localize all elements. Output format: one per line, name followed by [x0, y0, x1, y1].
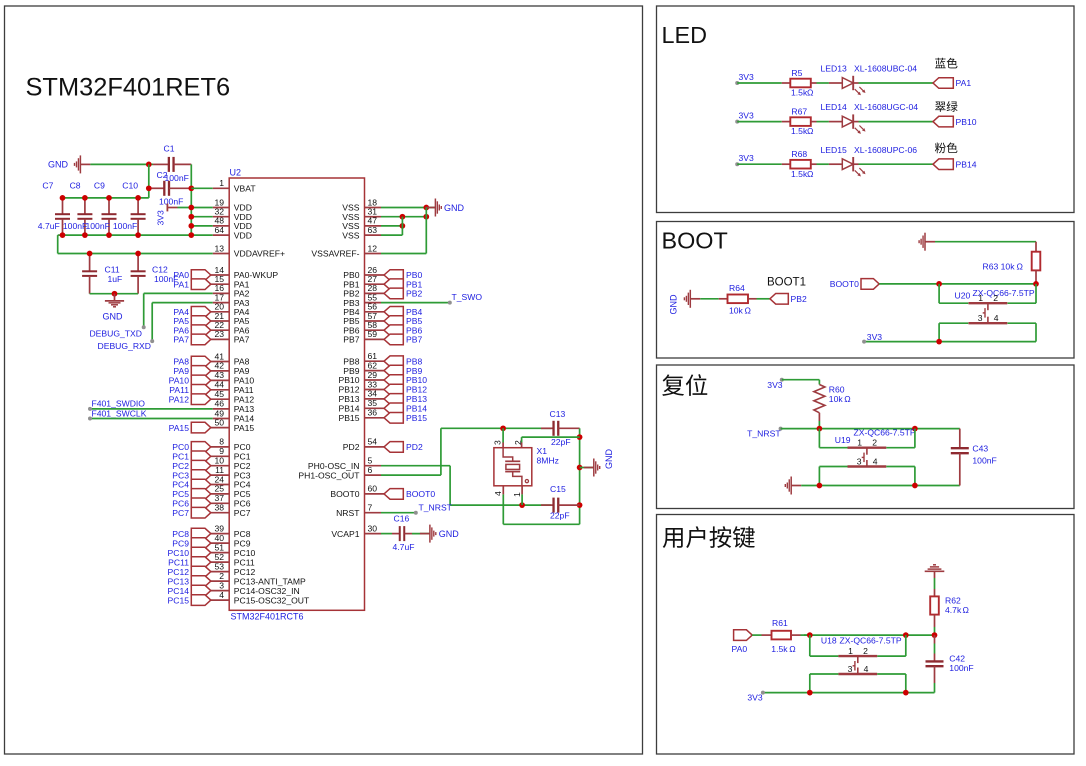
svg-text:GND: GND — [48, 160, 69, 170]
port flag PA8 (pin 41) — [191, 356, 211, 367]
U2 pin 37 PC6 — [211, 502, 229, 504]
U2 pin 7 NRST — [365, 512, 382, 514]
port flag PC3 (pin 11) — [191, 470, 211, 481]
capacitor C16 — [392, 533, 400, 535]
U2 pin 39 PC8 — [211, 533, 229, 535]
svg-text:3V3: 3V3 — [739, 153, 755, 163]
svg-text:PA1: PA1 — [956, 78, 972, 88]
port flag PC14 (pin 3) — [191, 585, 211, 596]
port flag PB13 (pin 34) — [384, 394, 403, 405]
U2 pin 36 PB15 — [365, 417, 385, 419]
svg-text:Ω: Ω — [807, 126, 814, 136]
capacitor C7 — [62, 198, 64, 214]
svg-text:1: 1 — [978, 293, 983, 303]
port flag PB2 (pin 28) — [384, 288, 403, 299]
wire T_NRST row — [781, 428, 960, 430]
svg-text:PC9: PC9 — [172, 538, 189, 548]
U2 pin 41 PA8 — [211, 361, 229, 363]
wire 3V3 to R68 — [737, 163, 782, 165]
svg-text:ZX-QC66-7.5TP: ZX-QC66-7.5TP — [840, 636, 902, 646]
U2 pin 47 VSS — [365, 225, 382, 227]
resistor R5 — [782, 82, 791, 84]
svg-text:30: 30 — [368, 523, 378, 533]
svg-text:7: 7 — [368, 503, 373, 513]
U2 pin 17 PA3 — [213, 302, 230, 304]
svg-text:BOOT0: BOOT0 — [830, 279, 859, 289]
svg-text:X1: X1 — [537, 446, 548, 456]
svg-text:XL-1608UBC-04: XL-1608UBC-04 — [854, 64, 917, 74]
svg-text:PC14: PC14 — [168, 586, 190, 596]
capacitor C9 — [108, 198, 110, 214]
port flag PA15 (pin 50) — [191, 422, 211, 433]
switch U19 wiring top — [818, 429, 820, 448]
port flag PC1 (pin 9) — [191, 451, 211, 462]
U2 pin 61 PB8 — [365, 360, 385, 362]
switch U18 contacts — [838, 655, 877, 657]
svg-text:PC11: PC11 — [168, 557, 189, 567]
U2 pin 16 PA2 — [213, 292, 230, 294]
svg-text:PC13: PC13 — [168, 576, 190, 586]
capacitor C11 — [89, 254, 91, 272]
svg-text:PB7: PB7 — [406, 335, 422, 345]
U2 pin 20 PA4 — [211, 311, 229, 313]
port flag PB14 (LED row) — [933, 159, 953, 170]
wire VSSAVREF- pin 12 — [381, 253, 426, 255]
wire top cap rail — [63, 197, 149, 199]
wire 3V3 rail BOOT — [864, 341, 1036, 343]
svg-text:PA7: PA7 — [173, 335, 189, 345]
port flag PC8 (pin 39) — [191, 528, 211, 539]
ground symbol user key (top) — [925, 570, 945, 572]
U2 pin 59 PB7 — [365, 338, 385, 340]
svg-text:PC14-OSC32_IN: PC14-OSC32_IN — [234, 586, 300, 596]
left schematic sheet frame — [5, 6, 643, 754]
svg-text:23: 23 — [214, 329, 224, 339]
svg-text:29: 29 — [368, 370, 378, 380]
svg-text:PC8: PC8 — [172, 529, 189, 539]
resistor R62 — [934, 589, 936, 596]
svg-text:LED14: LED14 — [821, 102, 847, 112]
svg-text:22pF: 22pF — [550, 510, 570, 520]
resistor R60 (zigzag) — [814, 385, 825, 413]
wire LED15 to port flag PB14 — [859, 163, 934, 165]
svg-text:1.5k: 1.5k — [791, 88, 808, 98]
wire R68 to LED15 — [817, 163, 829, 165]
svg-text:BOOT0: BOOT0 — [406, 489, 435, 499]
wire VDD rail pin 64 — [63, 234, 213, 236]
svg-text:C13: C13 — [550, 409, 566, 419]
svg-text:T_NRST: T_NRST — [747, 428, 781, 438]
svg-text:Ω: Ω — [789, 644, 796, 654]
svg-text:PA12: PA12 — [169, 394, 190, 404]
svg-text:100nF: 100nF — [159, 196, 183, 206]
svg-text:C9: C9 — [94, 181, 105, 191]
U2 pin 38 PC7 — [211, 512, 229, 514]
svg-text:3V3: 3V3 — [156, 210, 166, 226]
svg-text:6: 6 — [368, 465, 373, 475]
U2 pin 51 PC10 — [211, 552, 229, 554]
capacitor C8 — [84, 198, 86, 214]
svg-text:GND: GND — [444, 203, 465, 213]
svg-text:BOOT0: BOOT0 — [330, 489, 359, 499]
svg-text:3V3: 3V3 — [739, 110, 755, 120]
switch U18 wiring bottom — [810, 673, 839, 675]
svg-text:10k: 10k — [729, 306, 744, 316]
svg-text:PB7: PB7 — [343, 335, 359, 345]
U2 pin 52 PC11 — [211, 561, 229, 563]
wire reset ground rail — [801, 485, 960, 487]
svg-text:2: 2 — [993, 293, 998, 303]
svg-text:C16: C16 — [394, 513, 410, 523]
wire VBAT to U2 pin 1 — [191, 187, 212, 189]
U2 pin 34 PB13 — [365, 398, 385, 400]
svg-text:3: 3 — [857, 457, 862, 467]
wire PB3 to T_SWO — [381, 302, 450, 304]
U2 pin 5 PH0-OSC_IN — [365, 465, 382, 467]
U2 pin 3 PC14-OSC32_IN — [211, 590, 229, 592]
U2 pin 46 PA13 — [213, 408, 230, 410]
title fuwei (Reset) — [662, 374, 707, 396]
svg-text:DEBUG_RXD: DEBUG_RXD — [98, 341, 151, 351]
svg-text:63: 63 — [368, 225, 378, 235]
port flag PA7 (pin 23) — [191, 334, 211, 345]
wire 3V3 to R5 — [737, 82, 782, 84]
port flag PB0 (pin 26) — [384, 270, 403, 281]
ground symbol (top left) — [80, 163, 90, 165]
resistor R68 — [782, 163, 791, 165]
svg-text:VDDAVREF+: VDDAVREF+ — [234, 249, 285, 259]
svg-text:38: 38 — [214, 503, 224, 513]
port flag PB9 (pin 62) — [384, 365, 403, 376]
wire PA14 F401_SWCLK — [90, 418, 213, 420]
svg-text:LED15: LED15 — [821, 145, 847, 155]
U2 pin 56 PB4 — [365, 311, 385, 313]
svg-text:PC11: PC11 — [234, 557, 255, 567]
LED LED15 — [829, 163, 842, 165]
wire LED13 to port flag PA1 — [859, 82, 934, 84]
color label PA1 — [935, 58, 957, 69]
LED LED13 — [829, 82, 842, 84]
svg-text:XL-1608UGC-04: XL-1608UGC-04 — [854, 102, 918, 112]
wire GND to C1 — [90, 163, 153, 165]
wire PA13 F401_SWDIO — [90, 408, 213, 410]
capacitor C12 — [137, 254, 139, 272]
switch U20 wiring bottom — [939, 322, 968, 324]
svg-text:C12: C12 — [152, 264, 168, 274]
svg-text:2: 2 — [219, 571, 224, 581]
svg-text:52: 52 — [214, 552, 224, 562]
U2 pin 22 PA6 — [211, 329, 229, 331]
port flag PA11 (pin 44) — [191, 385, 211, 396]
U2 pin 32 VDD — [213, 216, 230, 218]
wire VDDAVREF+ pin 13 — [58, 253, 213, 255]
ground symbol BOOT left — [690, 298, 700, 300]
crystal X1 body — [494, 448, 532, 486]
wire PA0 to R61 — [752, 634, 761, 636]
svg-text:C1: C1 — [164, 144, 175, 154]
U2 pin 60 BOOT0 — [365, 493, 385, 495]
svg-text:100nF: 100nF — [86, 221, 110, 231]
svg-text:3: 3 — [978, 313, 983, 323]
wire osc top rail — [441, 427, 551, 429]
U2 pin 50 PA15 — [211, 427, 229, 429]
port flag PB2 (BOOT1) — [770, 294, 788, 305]
U2 pin 49 PA14 — [213, 418, 230, 420]
wire right osc column — [579, 428, 581, 524]
svg-text:BOOT: BOOT — [662, 228, 728, 254]
wire crystal pin 1 — [521, 486, 523, 495]
U2 pin 48 VDD — [213, 225, 230, 227]
U2 pin 15 PA1 — [211, 283, 229, 285]
wire VSS pin 63 — [381, 234, 402, 236]
svg-text:STM32F401RET6: STM32F401RET6 — [26, 74, 231, 102]
crystal X1 inner symbol — [503, 448, 513, 462]
U2 pin 8 PC0 — [211, 446, 229, 448]
svg-text:U18: U18 — [821, 636, 837, 646]
svg-text:4: 4 — [994, 313, 999, 323]
svg-text:C2: C2 — [157, 170, 168, 180]
U2 pin 29 PB10 — [365, 379, 385, 381]
U2 pin 10 PC2 — [211, 465, 229, 467]
port flag PC10 (pin 51) — [191, 547, 211, 558]
svg-text:PA12: PA12 — [234, 394, 255, 404]
U2 pin 4 PC15-OSC32_OUT — [211, 599, 229, 601]
U2 pin 25 PC5 — [211, 493, 229, 495]
svg-text:PD2: PD2 — [343, 442, 360, 452]
svg-text:45: 45 — [214, 389, 224, 399]
svg-text:PB14: PB14 — [406, 404, 427, 414]
port flag PA1 (LED row) — [933, 78, 953, 89]
svg-text:R67: R67 — [791, 107, 807, 117]
svg-text:3V3: 3V3 — [739, 72, 755, 82]
svg-text:100nF: 100nF — [949, 663, 973, 673]
svg-text:PB2: PB2 — [406, 289, 422, 299]
U2 pin 11 PC3 — [211, 474, 229, 476]
svg-text:U2: U2 — [230, 168, 242, 178]
switch U19 contacts — [848, 447, 887, 449]
svg-text:100nF: 100nF — [972, 456, 996, 466]
svg-text:PC7: PC7 — [172, 508, 189, 518]
svg-text:R61: R61 — [772, 618, 788, 628]
wire NRST to T_NRST — [381, 512, 416, 514]
svg-text:F401_SWCLK: F401_SWCLK — [92, 409, 147, 419]
svg-text:64: 64 — [214, 225, 224, 235]
BOOT section frame — [657, 222, 1075, 359]
wire C16 to GND — [412, 533, 430, 535]
svg-text:VSS: VSS — [342, 230, 359, 240]
resistor R63 — [1035, 242, 1037, 252]
svg-text:C43: C43 — [972, 444, 988, 454]
svg-text:R64: R64 — [729, 283, 745, 293]
port flag PA5 (pin 21) — [191, 316, 211, 327]
svg-text:1.5k: 1.5k — [791, 126, 808, 136]
port flag PC0 (pin 8) — [191, 442, 211, 453]
U2 pin 2 PC13-ANTI_TAMP — [211, 580, 229, 582]
color label PB10 — [935, 101, 957, 112]
svg-text:PC12: PC12 — [234, 567, 256, 577]
U2 pin 9 PC1 — [211, 455, 229, 457]
wire GND to R63 column — [935, 241, 1036, 243]
wire 3V3 to R60 — [782, 379, 820, 381]
U2 pin 35 PB14 — [365, 407, 385, 409]
wire osc bottom rail — [503, 523, 579, 525]
wire VSS column — [425, 208, 427, 254]
svg-text:1: 1 — [857, 438, 862, 448]
svg-text:3V3: 3V3 — [867, 332, 883, 342]
U2 pin 13 VDDAVREF+ — [213, 253, 230, 255]
svg-text:35: 35 — [368, 398, 378, 408]
port flag PB4 (pin 56) — [384, 307, 403, 318]
svg-text:1: 1 — [848, 646, 853, 656]
svg-text:T_NRST: T_NRST — [419, 503, 453, 513]
wire crystal pin 3 — [502, 428, 504, 442]
wire VSS pins 47/63 column — [401, 217, 403, 235]
U2 pin 14 PA0-WKUP — [211, 274, 229, 276]
port flag PB6 (pin 58) — [384, 325, 403, 336]
U2 pin 30 VCAP1 — [365, 533, 382, 535]
U2 pin 26 PB0 — [365, 274, 385, 276]
port flag PB5 (pin 57) — [384, 316, 403, 327]
ground symbol BOOT top right — [925, 241, 935, 243]
svg-text:PC7: PC7 — [234, 508, 251, 518]
port flag PA10 (pin 43) — [191, 375, 211, 386]
switch U20 contacts — [969, 302, 1008, 304]
svg-text:2: 2 — [872, 438, 877, 448]
wire R64 to PB2 flag — [757, 298, 770, 300]
junction C1/C2 column — [146, 162, 152, 168]
svg-text:4: 4 — [219, 590, 224, 600]
port flag PA6 (pin 22) — [191, 325, 211, 336]
svg-text:PA13: PA13 — [234, 404, 255, 414]
svg-text:PC8: PC8 — [234, 529, 251, 539]
svg-text:R68: R68 — [791, 149, 807, 159]
wire R61 to switch row — [804, 634, 935, 636]
U2 pin 54 PD2 — [365, 446, 385, 448]
svg-text:PC12: PC12 — [168, 567, 190, 577]
svg-text:PB15: PB15 — [338, 413, 359, 423]
wire VDD rail left corner — [58, 234, 63, 236]
port flag PC2 (pin 10) — [191, 460, 211, 471]
MCU U2 body — [229, 178, 364, 610]
svg-text:XL-1608UPC-06: XL-1608UPC-06 — [854, 145, 917, 155]
port flag PC9 (pin 40) — [191, 538, 211, 549]
switch U19 wiring bottom — [819, 466, 847, 468]
svg-text:PA15: PA15 — [169, 423, 190, 433]
U2 pin 42 PA9 — [211, 370, 229, 372]
svg-text:GND: GND — [604, 449, 614, 470]
svg-text:VDD: VDD — [234, 230, 252, 240]
svg-text:Ω: Ω — [844, 394, 851, 404]
svg-text:8MHz: 8MHz — [537, 456, 559, 466]
svg-text:PA7: PA7 — [234, 335, 250, 345]
wire GND to R62 — [934, 571, 936, 578]
port flag PC7 (pin 38) — [191, 507, 211, 518]
wire C11-C12 ground rail — [90, 293, 139, 295]
U2 pin 53 PC12 — [211, 571, 229, 573]
LED LED14 — [829, 121, 842, 123]
port flag PB14 (pin 35) — [384, 403, 403, 414]
svg-text:PC10: PC10 — [168, 548, 190, 558]
svg-text:F401_SWDIO: F401_SWDIO — [92, 399, 146, 409]
svg-text:54: 54 — [368, 437, 378, 447]
svg-text:50: 50 — [214, 417, 224, 427]
U2 pin 12 VSSAVREF- — [365, 253, 382, 255]
svg-text:VSSAVREF-: VSSAVREF- — [311, 249, 359, 259]
svg-text:VBAT: VBAT — [234, 184, 257, 194]
wire BOOT0 row — [879, 283, 1036, 285]
svg-text:PB2: PB2 — [791, 294, 807, 304]
svg-text:PH1-OSC_OUT: PH1-OSC_OUT — [298, 470, 360, 480]
svg-text:100nF: 100nF — [113, 221, 137, 231]
wire PH1-OSC_OUT to osc top rail — [381, 474, 441, 476]
U2 pin 18 VSS — [365, 207, 382, 209]
svg-text:PA15: PA15 — [234, 423, 255, 433]
ground symbol oscillator — [584, 467, 594, 469]
power flag 3V3 (VDD) — [166, 204, 168, 212]
svg-text:PC9: PC9 — [234, 538, 251, 548]
svg-text:Ω: Ω — [745, 306, 752, 316]
svg-text:3V3: 3V3 — [767, 380, 783, 390]
U2 pin 45 PA12 — [211, 398, 229, 400]
port flag PC13 (pin 2) — [191, 576, 211, 587]
port flag PA4 (pin 20) — [191, 307, 211, 318]
wire VDD pin 48 — [191, 225, 212, 227]
title yonghu anjian (User Key) — [663, 526, 755, 548]
U2 pin 55 PB3 — [365, 302, 382, 304]
port flag PC12 (pin 53) — [191, 566, 211, 577]
resistor R64 — [719, 298, 728, 300]
port flag PA9 (pin 42) — [191, 366, 211, 377]
svg-text:ZX-QC66-7.5TP: ZX-QC66-7.5TP — [854, 427, 916, 437]
svg-text:42: 42 — [214, 361, 224, 371]
U2 pin 62 PB9 — [365, 370, 385, 372]
wire vertical VBAT bus — [190, 164, 192, 235]
svg-text:36: 36 — [368, 408, 378, 418]
svg-text:4.7uF: 4.7uF — [38, 221, 60, 231]
svg-text:PB10: PB10 — [956, 117, 977, 127]
port flag PA1 (pin 15) — [191, 279, 211, 290]
capacitor C1 — [153, 163, 169, 165]
svg-text:10k: 10k — [829, 394, 844, 404]
svg-text:Ω: Ω — [1017, 261, 1024, 271]
svg-text:22pF: 22pF — [551, 437, 571, 447]
svg-text:C15: C15 — [550, 484, 566, 494]
U2 pin 64 VDD — [213, 234, 230, 236]
wire LED14 to port flag PB10 — [859, 121, 934, 123]
junction VBAT — [188, 185, 194, 191]
U2 pin 57 PB5 — [365, 320, 385, 322]
svg-text:PB14: PB14 — [956, 159, 977, 169]
svg-text:NRST: NRST — [336, 508, 360, 518]
wire R67 to LED14 — [817, 121, 829, 123]
port flag PC6 (pin 37) — [191, 498, 211, 509]
svg-text:GND: GND — [103, 312, 124, 322]
port flag PC11 (pin 52) — [191, 557, 211, 568]
svg-text:2: 2 — [513, 440, 523, 445]
RESET section frame — [657, 365, 1075, 509]
svg-text:Ω: Ω — [807, 88, 814, 98]
svg-text:13: 13 — [214, 243, 224, 253]
svg-text:U19: U19 — [835, 435, 851, 445]
wire VSS pin 18 to GND — [381, 207, 435, 209]
svg-text:BOOT1: BOOT1 — [767, 276, 806, 288]
svg-text:1: 1 — [512, 492, 522, 497]
svg-text:51: 51 — [214, 542, 224, 552]
U2 pin 6 PH1-OSC_OUT — [365, 474, 382, 476]
port flag PC4 (pin 24) — [191, 479, 211, 490]
port flag PB10 (pin 29) — [384, 375, 403, 386]
port flag PA0 (pin 14) — [191, 270, 211, 281]
